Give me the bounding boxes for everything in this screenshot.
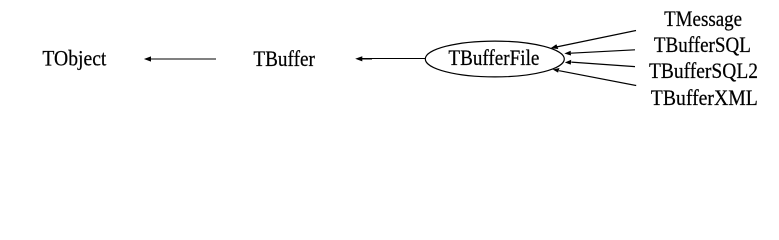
svg-text:TBufferFile: TBufferFile [448,45,539,70]
svg-text:TBufferXML: TBufferXML [651,85,758,110]
svg-text:TBufferSQL: TBufferSQL [654,32,751,57]
svg-text:TMessage: TMessage [664,6,742,31]
svg-text:TBuffer: TBuffer [253,46,315,71]
svg-text:TBufferSQL2: TBufferSQL2 [649,58,758,83]
svg-text:TObject: TObject [42,45,106,70]
